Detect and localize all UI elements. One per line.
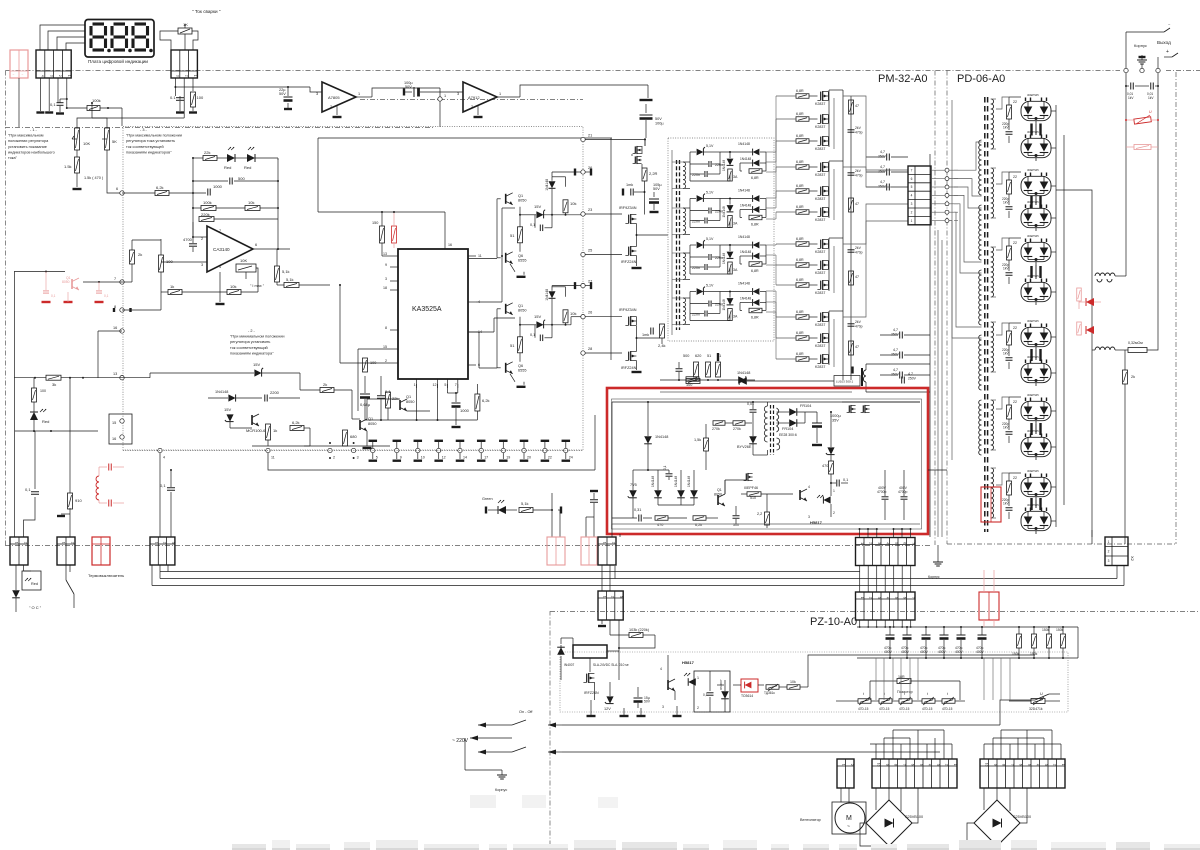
led H5817 aux	[823, 496, 830, 503]
svg-text:2k: 2k	[1131, 375, 1135, 379]
wire m2 drops	[585, 517, 587, 537]
wire gate4	[776, 166, 796, 168]
svg-text:3A: 3A	[733, 315, 738, 319]
svg-text:5: 5	[376, 456, 378, 460]
capacitor 220n b cell2	[704, 218, 706, 224]
svg-text:1N4148: 1N4148	[740, 204, 751, 208]
svg-text:Q6: Q6	[518, 254, 523, 258]
svg-text:показаниям индикаторов": показаниям индикаторов"	[126, 150, 172, 154]
svg-text:SLA-24VDC SLA. 010 se: SLA-24VDC SLA. 010 se	[593, 663, 629, 667]
diode 1N4148 bottom	[739, 377, 747, 385]
wire 220V rail from connector	[176, 86, 310, 88]
resistor 3A cell3	[728, 262, 733, 274]
svg-text:6,8R: 6,8R	[796, 112, 804, 116]
transistor pink Q1 8050	[14, 271, 65, 273]
svg-text:2: 2	[697, 706, 699, 710]
svg-text:14: 14	[463, 456, 467, 460]
resistor 270k b	[733, 421, 745, 426]
diode FR104 b	[789, 419, 797, 427]
svg-text:K2837: K2837	[815, 271, 825, 275]
wire out vertical rails	[1125, 70, 1127, 276]
svg-text:K2837: K2837	[815, 323, 825, 327]
svg-text:U: U	[1149, 110, 1152, 114]
wire rail to 50V cap	[647, 85, 649, 98]
svg-text:8050: 8050	[518, 308, 526, 312]
resistor 6.8R gate11	[796, 336, 809, 341]
wire gate2	[776, 118, 796, 120]
svg-text:1: 1	[602, 596, 606, 598]
wire K2837 group2 drain bus	[828, 161, 830, 218]
transformer LU103 current sense	[834, 376, 860, 387]
svg-text:12: 12	[442, 456, 446, 460]
capacitor 0.31	[638, 515, 640, 522]
connector X16 PZ top 7-pin	[856, 592, 916, 620]
svg-text:400V: 400V	[938, 650, 947, 654]
capacitor 220p 1kV pd5	[1006, 431, 1013, 433]
resistor 6.8R gate8	[796, 263, 809, 268]
wire bottom verticals	[875, 744, 877, 759]
transistor Q6 6555 driver2	[505, 363, 507, 373]
transistor Q6 K2837	[820, 187, 822, 196]
svg-text:5,1V: 5,1V	[706, 237, 714, 241]
svg-text:220n: 220n	[692, 220, 700, 224]
wire bottom horiz mesh	[870, 743, 952, 745]
svg-text:680: 680	[350, 434, 357, 439]
svg-text:" I max ": " I max "	[250, 284, 265, 288]
resistor 51a small	[706, 362, 711, 377]
svg-text:4,7: 4,7	[880, 180, 885, 184]
wire driver transformer dotted box	[668, 138, 774, 341]
diode 1N4148 aux3	[677, 490, 685, 498]
svg-text:2: 2	[868, 542, 872, 544]
svg-text:K2837: K2837	[815, 365, 825, 369]
svg-text:I40EPS05: I40EPS05	[1027, 393, 1039, 397]
svg-text:7: 7	[911, 168, 913, 172]
svg-text:показаниям индикатора": показаниям индикатора"	[230, 351, 274, 355]
wire PD output rail b	[1063, 135, 1065, 505]
svg-text:3: 3	[385, 277, 387, 281]
highlight red box	[607, 388, 928, 534]
connector X2 display 3-pin	[171, 50, 197, 78]
svg-text:0,32мОм: 0,32мОм	[1128, 341, 1143, 345]
svg-text:4: 4	[41, 75, 45, 77]
wire PD rail to chokes	[1056, 190, 1092, 276]
resistor 22 pd1	[1007, 105, 1012, 119]
svg-text:470: 470	[657, 523, 663, 527]
svg-text:23: 23	[588, 208, 592, 212]
svg-text:0,1: 0,1	[530, 223, 535, 227]
resistor 150k a	[1017, 634, 1022, 648]
wire gate12	[776, 358, 796, 360]
diode module D7 dual	[1021, 327, 1051, 346]
svg-text:220n: 220n	[692, 266, 700, 270]
svg-text:1000: 1000	[460, 408, 470, 413]
zener 7V5	[629, 490, 637, 498]
svg-text:8050: 8050	[406, 400, 414, 404]
resistor 100k top	[87, 106, 100, 111]
wire K2837 group1 drain bus	[828, 90, 830, 147]
svg-text:6: 6	[902, 542, 906, 544]
svg-text:24: 24	[569, 456, 573, 460]
svg-text:22k: 22k	[392, 396, 398, 401]
svg-text:20: 20	[527, 456, 531, 460]
svg-text:50V: 50V	[655, 117, 662, 121]
wire pz opto net	[717, 684, 724, 686]
svg-text:103k (220k): 103k (220k)	[629, 628, 650, 632]
resistor 5.1k green	[519, 508, 533, 513]
svg-text:6: 6	[911, 177, 913, 181]
svg-text:" Ток сварки ": " Ток сварки "	[192, 9, 221, 14]
svg-text:4700p: 4700p	[898, 490, 908, 494]
capacitor 0.01 1kV b	[1150, 83, 1152, 90]
wire aux bottom rail	[612, 523, 920, 525]
svg-text:1: 1	[1108, 540, 1110, 544]
svg-text:4700: 4700	[183, 237, 193, 242]
svg-text:26: 26	[588, 311, 592, 315]
ground driver2	[510, 374, 515, 382]
diode module D5 dual	[1021, 242, 1051, 261]
wire gate7	[776, 243, 796, 245]
connector X14 left 10pin	[872, 759, 957, 788]
wire long bus B	[152, 585, 1124, 587]
wire gate11	[776, 337, 796, 339]
svg-text:K2837: K2837	[815, 250, 825, 254]
svg-text:K2837: K2837	[815, 218, 825, 222]
svg-text:22: 22	[1013, 100, 1017, 104]
wire PZ inner dotted rect	[560, 652, 1068, 712]
svg-text:150k: 150k	[1012, 652, 1020, 656]
ic pins left	[390, 255, 398, 257]
diode 1N4148 aux1	[644, 436, 652, 444]
svg-text:CA3140: CA3140	[213, 247, 230, 252]
resistor 3A cell1	[728, 169, 733, 181]
svg-text:6,8R: 6,8R	[796, 134, 804, 138]
svg-text:8050: 8050	[62, 280, 70, 284]
capacitor 400V 4700p a	[882, 496, 889, 498]
svg-text:1: 1	[154, 542, 158, 544]
svg-text:1k: 1k	[273, 428, 277, 433]
svg-text:100: 100	[197, 95, 204, 100]
svg-text:470p: 470p	[855, 131, 863, 135]
svg-text:2: 2	[71, 542, 75, 544]
arrow 220v b	[470, 737, 512, 739]
svg-text:K2837: K2837	[815, 125, 825, 129]
transformer T1 winding 3	[683, 253, 686, 257]
svg-text:1N4148: 1N4148	[722, 299, 726, 310]
wire x70 column top	[69, 378, 71, 460]
svg-text:Red: Red	[224, 165, 231, 170]
resistor 22 pd5	[1007, 405, 1012, 419]
wire bank right	[1077, 627, 1079, 658]
ground pz parts	[587, 715, 596, 717]
svg-text:0,1: 0,1	[51, 294, 56, 298]
wire fet pair net	[644, 140, 646, 147]
svg-text:8050: 8050	[368, 422, 376, 426]
diode module D4 dual	[1021, 208, 1051, 227]
capacitor pink c	[96, 290, 102, 292]
svg-text:"При максимальном: "При максимальном	[8, 134, 44, 138]
resistor 5.1k link	[284, 283, 299, 288]
svg-text:3: 3	[357, 456, 359, 460]
svg-text:1N4148: 1N4148	[722, 253, 726, 264]
svg-text:4: 4	[1035, 764, 1039, 766]
svg-text:S25VB100: S25VB100	[905, 815, 923, 819]
capacitor 0.1 m2	[590, 499, 598, 501]
svg-text:13: 13	[383, 252, 387, 256]
svg-text:I40EPS05: I40EPS05	[1027, 200, 1039, 204]
wire 100k to pots	[77, 107, 92, 128]
resistor 100 ic	[363, 358, 368, 372]
svg-text:47: 47	[855, 345, 859, 349]
svg-text:Green: Green	[482, 497, 493, 501]
capacitor 400V 4700p b	[901, 496, 908, 498]
varistor red pd	[1134, 117, 1152, 124]
diode 1N4148 d cell1	[753, 160, 760, 167]
svg-text:6,8R: 6,8R	[796, 310, 804, 314]
wire K2837 group3 source bus	[833, 246, 835, 293]
svg-text:3: 3	[911, 202, 913, 206]
svg-text:K2837: K2837	[815, 197, 825, 201]
ground 1000 ic	[452, 426, 461, 428]
resistor 1.5k aux	[704, 438, 709, 451]
svg-text:0.1: 0.1	[170, 95, 176, 100]
svg-text:2: 2	[385, 359, 387, 363]
svg-text:2k: 2k	[323, 382, 327, 387]
wire gate3	[776, 140, 796, 142]
wire K2837 group4 source bus	[833, 319, 835, 367]
svg-text:500: 500	[238, 176, 245, 181]
connector X2 PD bottom	[1105, 537, 1128, 566]
ground 0.1 cap	[56, 112, 64, 114]
wire main board top border	[6, 70, 1121, 72]
resistor 6.8R gate6	[796, 210, 809, 215]
wire aux diode net	[657, 470, 659, 490]
wire small parts bus	[660, 379, 755, 381]
svg-text:~: ~	[22, 73, 24, 77]
svg-text:7V5: 7V5	[630, 483, 637, 487]
capacitor 4.7 250V out3	[886, 184, 888, 191]
wire X14 to bank	[875, 658, 877, 700]
wire module pair 5	[1035, 424, 1037, 434]
wire left bus from pink connector	[18, 78, 20, 127]
svg-text:1N4148: 1N4148	[655, 435, 668, 439]
svg-text:установить показание: установить показание	[8, 145, 47, 149]
wire K2837 group2 source bus	[833, 169, 835, 220]
capacitor 4.7 250V low1	[899, 332, 901, 339]
capacitor 4.7 250V low3	[899, 372, 901, 379]
capacitor 4.7 250V sense	[901, 377, 903, 384]
transistor IRFZ24N lower2	[628, 352, 630, 361]
svg-text:1: 1	[499, 92, 501, 96]
svg-text:3: 3	[877, 597, 881, 599]
svg-text:0,1: 0,1	[50, 102, 56, 107]
resistor 5.1k out	[275, 266, 280, 282]
wire rail border segment	[360, 99, 583, 101]
transistor Q8 K2837	[820, 240, 822, 249]
capacitor 2200	[264, 395, 266, 402]
svg-text:6: 6	[255, 243, 257, 247]
connector X4 PM bottom 7-pin	[856, 538, 916, 566]
wire driver2 net	[496, 309, 498, 368]
svg-text:22: 22	[1013, 326, 1017, 330]
transistor small fet pair top	[634, 146, 636, 153]
capacitor 50V 100u main	[640, 114, 653, 116]
wire gate6	[776, 211, 796, 213]
svg-text:2: 2	[1108, 549, 1110, 553]
wire K2837 group3 drain bus	[828, 238, 830, 291]
diode module D9 dual	[1021, 401, 1051, 420]
connector X3 PM out 7-pin	[908, 166, 931, 225]
svg-text:3: 3	[877, 542, 881, 544]
resistor 3k left	[14, 377, 46, 379]
resistor 150k c	[1047, 634, 1052, 648]
wire drain rail x611	[610, 138, 612, 360]
wire cell4 net	[690, 291, 696, 293]
svg-text:0,1: 0,1	[843, 478, 848, 482]
svg-text:3: 3	[457, 92, 459, 96]
diode 1N4148 mcr	[228, 394, 235, 401]
svg-text:1kV: 1kV	[1128, 96, 1134, 100]
svg-text:~: ~	[847, 824, 850, 830]
transistor Q13 K2837	[820, 355, 822, 364]
wire mosfet2 net	[636, 317, 638, 326]
svg-text:1kV: 1kV	[1003, 502, 1009, 506]
arrow 220v c	[478, 751, 512, 753]
wire pin4 lead down to 0.1 cap	[67, 78, 87, 108]
svg-text:6555: 6555	[518, 258, 526, 262]
svg-text:ТО3614: ТО3614	[741, 694, 753, 698]
svg-text:1: 1	[67, 75, 71, 77]
capacitor 4.7 250V low2	[899, 352, 901, 359]
svg-text:10k: 10k	[248, 200, 254, 205]
svg-text:2kV: 2kV	[855, 126, 862, 130]
wire aux left net	[647, 444, 649, 470]
transistor Q2 K2837	[820, 92, 822, 101]
svg-text:3A: 3A	[733, 268, 738, 272]
svg-text:I40EPS05: I40EPS05	[1027, 93, 1039, 97]
svg-text:1N4148: 1N4148	[687, 476, 691, 487]
resistor 3A cell2	[728, 216, 733, 228]
diode 1N4148 d cell4	[753, 299, 760, 306]
svg-text:15: 15	[383, 345, 387, 349]
transistor Q7 K2837	[820, 208, 822, 217]
diode 1N4148 above	[738, 376, 746, 384]
svg-text:15V: 15V	[534, 314, 541, 319]
motor fan M1	[832, 802, 866, 834]
ground drv	[366, 431, 368, 446]
wire conn3 leads down	[174, 78, 176, 96]
digital indicator module body	[85, 20, 154, 58]
diode module D2 dual	[1021, 138, 1051, 157]
zener 5.1V cell2	[697, 195, 704, 202]
svg-text:6,8R: 6,8R	[796, 258, 804, 262]
svg-text:Выход: Выход	[1157, 40, 1171, 45]
wire cell1 net	[690, 151, 696, 153]
svg-text:2: 2	[833, 511, 835, 515]
svg-text:100: 100	[166, 259, 173, 264]
led RED1	[227, 154, 235, 162]
svg-text:1: 1	[193, 75, 197, 77]
svg-text:5: 5	[894, 597, 898, 599]
capacitor 220n a cell2	[708, 208, 710, 214]
wire PD right border	[1175, 72, 1177, 544]
svg-text:IRFZ24N: IRFZ24N	[621, 366, 637, 370]
svg-text:0,1: 0,1	[104, 294, 109, 298]
transistor Q4 K2837	[820, 137, 822, 146]
faint print artifacts	[470, 795, 496, 808]
capacitor 500	[229, 178, 231, 185]
wire left rail y431	[15, 430, 98, 432]
wire module pair 2	[1035, 199, 1037, 205]
svg-text:5K: 5K	[112, 139, 117, 144]
svg-text:1N4148: 1N4148	[737, 371, 750, 375]
svg-text:5: 5	[1027, 764, 1031, 766]
svg-text:510: 510	[750, 496, 756, 500]
svg-text:12: 12	[433, 383, 437, 387]
svg-text:1: 1	[444, 94, 446, 98]
ground pink a	[42, 301, 51, 303]
svg-text:0,1: 0,1	[160, 483, 166, 488]
svg-text:6,8R: 6,8R	[796, 278, 804, 282]
svg-text:1N4148: 1N4148	[740, 157, 751, 161]
svg-text:Q1: Q1	[717, 488, 722, 492]
wire y450 pad row	[158, 448, 162, 452]
resistor 6.8R gate5	[796, 189, 809, 194]
diode 1N4148 driver1	[549, 181, 556, 188]
svg-text:47D-15: 47D-15	[922, 707, 933, 711]
svg-text:4: 4	[927, 764, 931, 766]
svg-text:1N4148: 1N4148	[674, 476, 678, 487]
wire module pair 4	[1035, 350, 1037, 360]
wire node13 to zener	[122, 377, 150, 379]
wire pot to connector	[160, 31, 178, 50]
svg-text:I40EPS05: I40EPS05	[1027, 274, 1039, 278]
svg-text:3: 3	[176, 75, 180, 77]
svg-text:K2837: K2837	[815, 344, 825, 348]
capacitor 0.1 under X2	[176, 97, 184, 99]
connector X1 display 4-pin	[36, 50, 71, 78]
wire left dotted-border nodes	[120, 280, 124, 284]
svg-text:25: 25	[588, 249, 592, 253]
resistor 150k b	[1032, 634, 1037, 648]
capacitor 0.1 display	[57, 102, 64, 104]
connector X12 PZ top 3-pin	[598, 591, 623, 620]
svg-text:EE28 300:6: EE28 300:6	[779, 433, 797, 437]
ground IRFZ24N2	[636, 361, 638, 371]
zener 15V mcr	[254, 369, 261, 376]
svg-text:6,8R: 6,8R	[796, 331, 804, 335]
capacitor 0.1 left	[31, 491, 39, 493]
capacitor 470u 400V x926	[922, 634, 931, 636]
capacitor 4.7 250V out2	[886, 169, 888, 176]
svg-text:47: 47	[855, 275, 859, 279]
svg-text:6: 6	[116, 187, 118, 191]
wire PD output right rail	[1055, 105, 1057, 527]
diode 1N4148 c cell3	[753, 242, 760, 249]
svg-text:тока": тока"	[8, 156, 18, 160]
svg-text:16: 16	[112, 437, 116, 441]
svg-text:0,1: 0,1	[530, 333, 535, 337]
wire cell3 net	[690, 244, 696, 246]
wire PZ-10 board border	[550, 612, 1200, 850]
wire X2 pin2 to pots rail	[183, 96, 185, 118]
svg-text:5,1k: 5,1k	[286, 277, 294, 282]
wire x930 vertical	[929, 154, 931, 537]
wire 220v left rail	[18, 92, 20, 127]
wire pd cell3	[1008, 238, 1010, 246]
node 6	[120, 191, 124, 195]
capacitor pink a	[43, 290, 49, 292]
